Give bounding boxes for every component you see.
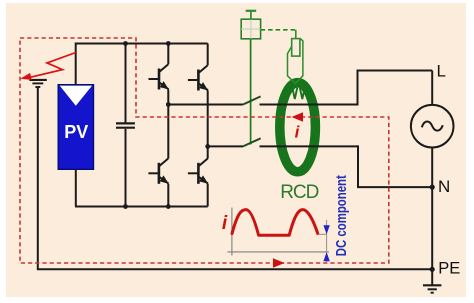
AC source circle bbox=[411, 105, 454, 148]
N drop wire bbox=[358, 145, 432, 187]
RCD test button cross lines bbox=[241, 19, 260, 39]
RCD trip coil body bbox=[292, 39, 300, 57]
transistor Q2 top-right bbox=[188, 65, 208, 90]
PV frame ground symbol bbox=[29, 80, 46, 87]
inverter right leg wire bbox=[207, 44, 209, 207]
RCD contact blade bottom bbox=[243, 138, 261, 146]
svg-text:PV: PV bbox=[64, 122, 88, 142]
DC link capacitor C1 plates bbox=[116, 123, 135, 127]
DC bus top rail bbox=[76, 43, 208, 45]
inverter left leg wire bbox=[167, 44, 169, 207]
DC link capacitor bottom wire bbox=[125, 129, 127, 207]
DC level extension line bbox=[318, 233, 327, 235]
PE ground symbol bbox=[423, 285, 441, 292]
waveform current trace bbox=[232, 210, 318, 236]
RCD test button T bar bbox=[246, 10, 257, 12]
DC link capacitor top wire bbox=[125, 44, 127, 123]
RCD toroid core bbox=[280, 83, 316, 172]
svg-text:PE: PE bbox=[438, 260, 460, 278]
node right leg output bbox=[205, 144, 210, 149]
transistor Q4 bottom-right bbox=[188, 159, 208, 184]
RCD contact blade top bbox=[243, 96, 261, 104]
L riser wire bbox=[358, 71, 433, 106]
fault zigzag arrowhead bbox=[20, 73, 32, 80]
node PE bbox=[430, 267, 435, 272]
PE ground wire bbox=[431, 269, 433, 285]
RCD test link (dashed) bbox=[261, 29, 296, 31]
svg-text:L: L bbox=[437, 62, 446, 81]
svg-text:RCD: RCD bbox=[280, 182, 318, 203]
PV positive wire bbox=[75, 43, 77, 85]
node N bbox=[430, 185, 435, 190]
line wire through toroid bbox=[260, 104, 358, 106]
DC dimension line bbox=[326, 220, 328, 262]
svg-text:DC component: DC component bbox=[334, 175, 350, 256]
AC source bottom wire to N and PE bbox=[431, 148, 433, 270]
RCD switch linkage bbox=[250, 39, 252, 145]
wire to AC source top bbox=[431, 71, 433, 106]
node capacitor top bbox=[123, 41, 128, 46]
fault current arrow in toroid bbox=[292, 112, 304, 121]
node left leg output bbox=[166, 102, 171, 107]
node left leg bottom bbox=[166, 204, 171, 209]
DC bus bottom rail bbox=[75, 206, 208, 208]
fault zigzag arrow bbox=[29, 53, 76, 78]
RCD test button stem bbox=[250, 11, 252, 19]
DC dimension arrow down bbox=[323, 225, 329, 234]
inverter output bottom wire bbox=[208, 145, 243, 147]
PV panel triangle bbox=[60, 86, 92, 106]
RCD trip coil stem bbox=[295, 30, 297, 39]
AC source sine bbox=[422, 122, 443, 131]
RCD trip armature outline bbox=[288, 38, 303, 83]
node capacitor bottom bbox=[123, 204, 128, 209]
PV negative wire bbox=[75, 168, 77, 207]
PE bottom wire bbox=[38, 87, 432, 269]
svg-text:i: i bbox=[222, 213, 228, 234]
inverter output top wire bbox=[168, 104, 243, 106]
fault current loop (dashed) bbox=[20, 38, 389, 263]
DC dimension arrow up bbox=[323, 252, 329, 261]
waveform horizontal axis bbox=[227, 251, 329, 253]
node left leg top bbox=[166, 41, 171, 46]
RCD secondary winding teeth bbox=[292, 88, 305, 100]
neutral wire through toroid bbox=[260, 145, 359, 147]
waveform vertical axis bbox=[231, 208, 233, 256]
RCD test button body bbox=[241, 19, 260, 39]
fault current arrow bottom bbox=[273, 258, 285, 267]
PV panel body bbox=[58, 85, 93, 170]
transistor Q3 bottom-left bbox=[148, 159, 168, 184]
svg-text:N: N bbox=[438, 177, 450, 196]
transistor Q1 top-left bbox=[149, 64, 169, 89]
